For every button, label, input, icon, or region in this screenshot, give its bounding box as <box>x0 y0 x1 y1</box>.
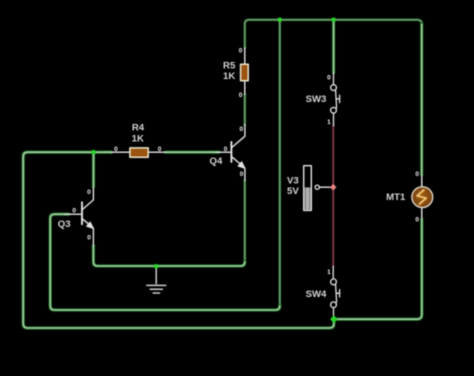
junction node top bus / base net <box>278 18 283 23</box>
resistor R4 <box>111 123 166 158</box>
junction node R4 wire / Q3 collector <box>91 150 96 155</box>
red wire SW3 bottom to SW4 top (V3 net) <box>332 126 335 266</box>
svg-text:0: 0 <box>240 171 244 178</box>
svg-text:0: 0 <box>239 92 243 99</box>
transistor Q4 <box>210 125 246 181</box>
wire base net (top bus junction down, across bottom, up to Q3 base) <box>50 20 280 310</box>
svg-text:MT1: MT1 <box>386 192 406 203</box>
svg-text:V3: V3 <box>287 176 299 187</box>
wire R4 right to Q4 base <box>166 150 219 154</box>
svg-text:R4: R4 <box>132 123 145 134</box>
svg-text:1: 1 <box>327 119 331 126</box>
svg-text:0: 0 <box>87 235 91 242</box>
svg-text:5V: 5V <box>287 186 299 197</box>
transistor Q3 <box>58 188 94 247</box>
ground symbol <box>147 266 166 293</box>
svg-text:0: 0 <box>158 146 162 153</box>
wire top bus (R5 top to MT1 top) <box>245 20 422 175</box>
svg-text:0: 0 <box>72 207 76 214</box>
wire Q3 collector drop from junction <box>92 152 96 186</box>
svg-text:0: 0 <box>239 126 243 133</box>
svg-text:R5: R5 <box>223 61 236 72</box>
svg-text:Q3: Q3 <box>58 219 71 230</box>
wire SW4 junction to MT1 bottom <box>334 220 422 320</box>
svg-text:0: 0 <box>415 217 419 224</box>
junction node SW4 bottom <box>330 315 338 323</box>
junction node ground rail <box>154 264 159 269</box>
wire SW3 top drop <box>332 20 336 73</box>
svg-text:0: 0 <box>87 189 91 196</box>
wire R4 left, left column, bottom run to SW4 junction <box>23 152 334 328</box>
svg-text:1K: 1K <box>223 71 235 82</box>
switch SW3 <box>306 73 340 127</box>
svg-text:1K: 1K <box>132 134 144 145</box>
svg-text:0: 0 <box>239 47 243 54</box>
wire R5 bottom to Q4 collector <box>243 95 246 126</box>
junction node top bus / SW3 <box>331 18 336 23</box>
resistor R5 <box>223 47 248 99</box>
svg-text:0: 0 <box>224 146 228 153</box>
svg-text:SW4: SW4 <box>306 289 327 300</box>
svg-text:1: 1 <box>327 269 331 276</box>
svg-text:0: 0 <box>114 146 118 153</box>
wire Q4 emitter to ground rail to Q3 emitter <box>93 181 244 267</box>
svg-text:SW3: SW3 <box>306 94 327 105</box>
svg-text:Q4: Q4 <box>210 156 223 167</box>
battery V3 <box>287 166 331 211</box>
svg-text:0: 0 <box>415 171 419 178</box>
red junction at V3 <box>330 184 337 191</box>
motor MT1 <box>386 171 433 224</box>
switch SW4 <box>306 266 340 317</box>
svg-text:0: 0 <box>327 75 331 82</box>
